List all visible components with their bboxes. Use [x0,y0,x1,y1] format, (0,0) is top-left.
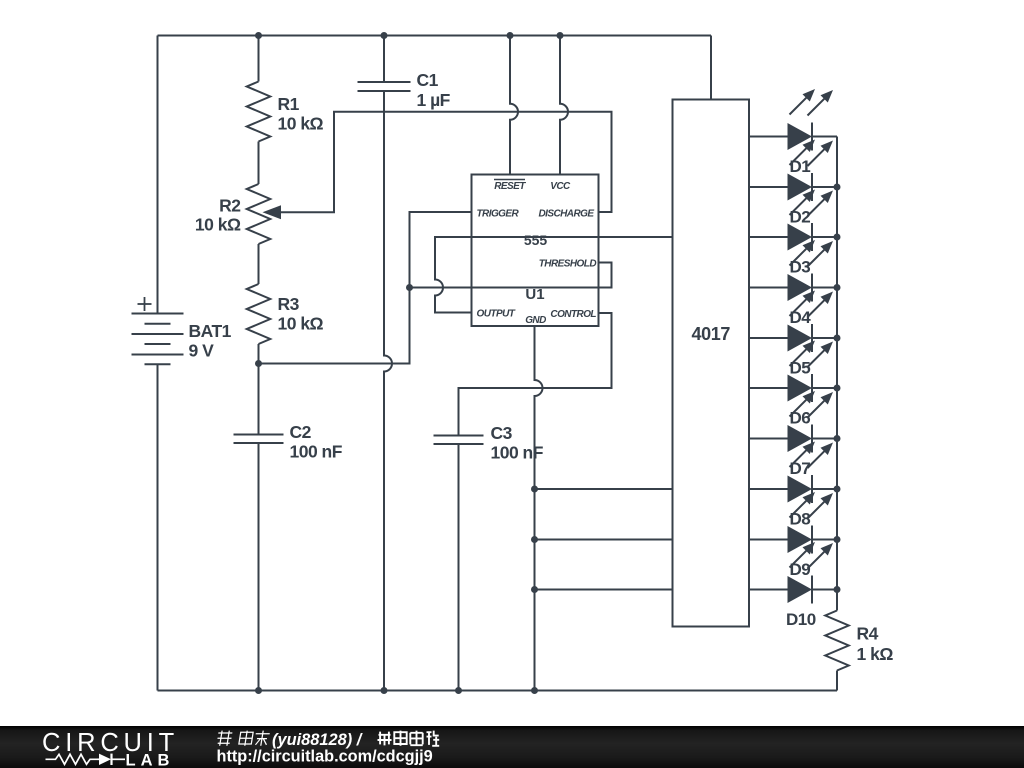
svg-text:10 kΩ: 10 kΩ [278,114,324,134]
svg-text:THRESHOLD: THRESHOLD [539,259,597,270]
svg-text:10 kΩ: 10 kΩ [195,215,241,235]
svg-text:D8: D8 [790,510,811,529]
wire: R4 to ground rail [836,671,838,691]
LED D3 [749,190,837,277]
wire: THRESHOLD loop to trigger node [410,263,612,288]
svg-text:D6: D6 [790,409,811,428]
IC U2: 4017 decade counter box [673,100,750,627]
wire: GND pin to ground rail with hop [535,326,543,691]
junction: D10 cathode at rail [834,586,841,593]
wire: R1 to R2 [258,142,260,185]
svg-text:OUTPUT: OUTPUT [477,309,516,320]
svg-text:100 nF: 100 nF [290,442,343,462]
svg-text:R4: R4 [857,624,879,644]
wire: R2 wiper to DISCHARGE net [278,112,612,213]
wire: top power rail [158,35,712,37]
svg-text:R1: R1 [278,94,300,114]
svg-text:D7: D7 [790,459,811,478]
wire: 4017 left pin row 10 to gnd riser [535,589,673,591]
junction: C2 at ground rail [255,687,262,694]
LED D8 [749,442,837,529]
wire: bottom ground rail [158,690,838,692]
wire: battery negative lead down to ground rail [157,364,159,690]
LED D6 [749,341,837,428]
svg-text:GND: GND [525,315,546,326]
junction: C3 at ground rail [455,687,462,694]
svg-text:1 kΩ: 1 kΩ [857,644,894,664]
wire: C1 bottom lead to ground rail with hop [384,91,392,691]
junction: R3/C2/trigger node [255,360,262,367]
svg-text:R3: R3 [278,294,300,314]
svg-text:CONTROL: CONTROL [550,309,596,320]
junction: D2 cathode at rail [834,184,841,191]
wire: RESET pin riser with hop [510,36,518,175]
wire: LED cathode rail [836,137,838,611]
wire: R1 top lead from rail [258,36,260,82]
LED D9 [749,492,837,579]
junction: gnd riser row 8 [531,486,538,493]
battery BAT1 9 V [132,297,232,364]
wire: VCC pin riser with hop [560,36,568,175]
svg-text:R2: R2 [219,196,241,216]
wire: VDD drop to 4017 top pin [710,36,712,100]
svg-text:U1: U1 [525,286,544,303]
junction: D4 cathode at rail [834,284,841,291]
svg-text:D3: D3 [790,258,811,277]
junction: C1 at ground rail [381,687,388,694]
junction: D5 cathode at rail [834,335,841,342]
svg-text:10 kΩ: 10 kΩ [278,314,324,334]
CircuitLab logo [42,729,179,768]
resistor R4 1 kΩ [825,611,893,671]
junction: RESET riser at top rail [507,32,514,39]
footer author line [216,731,439,749]
LED D7 [749,391,837,478]
op-amp U1: 555 timer box [472,175,599,327]
svg-text:DISCHARGE: DISCHARGE [538,209,594,220]
svg-text:4017: 4017 [692,324,731,344]
footer bar [0,726,1024,768]
svg-text:C2: C2 [290,422,312,442]
resistor R1 10 kΩ [247,82,324,142]
svg-text:http://circuitlab.com/cdcgjj9: http://circuitlab.com/cdcgjj9 [217,748,433,766]
svg-text:100 nF: 100 nF [491,443,544,463]
junction: D9 cathode at rail [834,536,841,543]
svg-text:1 µF: 1 µF [417,90,451,110]
junction: gnd riser row 9 [531,536,538,543]
svg-text:TRIGGER: TRIGGER [477,209,520,220]
wire: 4017 left pin row 8 to gnd riser [535,488,673,490]
LED D4 [749,240,837,327]
LED D5 [749,291,837,378]
capacitor C3 100 nF [434,423,544,463]
potentiometer R2 10 kΩ [195,184,281,244]
svg-text:LAB: LAB [126,751,175,768]
wire: R3 bottom node to trigger riser [259,212,472,364]
junction: C1 at top rail [381,32,388,39]
wire: C2 to ground rail [258,443,260,691]
svg-text:C1: C1 [417,70,439,90]
svg-text:VCC: VCC [550,181,571,192]
LED D10 [749,542,837,629]
wire: CONTROL to C3 [459,313,612,436]
junction: R1 at top rail [255,32,262,39]
wire: R2 to R3 [258,244,260,284]
wire: R3 bottom to C2 [258,344,260,435]
resistor R3 10 kΩ [247,284,324,344]
wire: C1 top lead from rail [383,36,385,83]
wire: battery positive lead up to rail [157,36,159,314]
svg-text:(yui88128) /: (yui88128) / [272,731,363,749]
capacitor C2 100 nF [234,422,343,462]
svg-text:D10: D10 [786,610,816,629]
svg-text:D4: D4 [790,308,812,327]
junction: gnd riser row 10 [531,586,538,593]
wire: C3 to ground rail [458,444,460,691]
junction: GND riser at ground rail [531,687,538,694]
svg-text:C3: C3 [491,423,513,443]
junction: D6 cathode at rail [834,385,841,392]
junction: D7 cathode at rail [834,435,841,442]
LED D1 [749,89,837,176]
svg-text:9 V: 9 V [189,341,215,361]
capacitor C1 1 µF [358,70,451,110]
svg-text:555: 555 [524,232,548,248]
svg-text:RESET: RESET [494,181,526,192]
junction: D3 cathode at rail [834,234,841,241]
LED D2 [749,140,837,227]
junction: D8 cathode at rail [834,486,841,493]
wire: 4017 left pin row 9 to gnd riser [535,539,673,541]
svg-text:BAT1: BAT1 [189,321,232,341]
svg-text:D1: D1 [790,157,811,176]
junction: trigger/threshold tie [406,284,413,291]
junction: VCC riser at top rail [557,32,564,39]
wire: OUTPUT to 4017 clock (with hop) [435,237,673,313]
